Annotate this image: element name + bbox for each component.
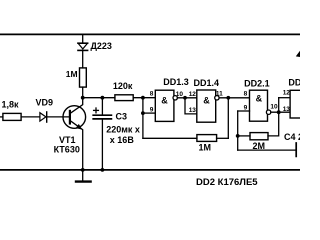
junction out DD1.4: [226, 96, 230, 100]
gate DD1.4: [197, 90, 219, 122]
junction out DD2.1: [277, 110, 281, 114]
resistor 1,8к: [0, 116, 3, 118]
feedback wire bottom: [143, 137, 197, 139]
vertical to pin 13: [185, 98, 197, 114]
pin 12 wire: [279, 97, 290, 99]
svg-text:120к: 120к: [113, 81, 133, 91]
wire to VD9: [21, 116, 40, 118]
svg-text:12: 12: [283, 90, 291, 97]
svg-text:DD1.4: DD1.4: [194, 78, 220, 88]
svg-text:DD2 К176ЛЕ5: DD2 К176ЛЕ5: [196, 177, 258, 188]
svg-text:С4 2: С4 2: [284, 132, 300, 142]
gate DD2.1: [250, 90, 271, 121]
node C3 junction: [101, 96, 105, 100]
svg-text:8: 8: [150, 90, 154, 97]
resistor 120к: [115, 95, 133, 101]
wire VD9 to base: [47, 116, 69, 118]
diode Д223: [78, 43, 88, 50]
junction out DD1.3: [183, 96, 187, 100]
bottom ground rail: [0, 169, 300, 171]
ground: [76, 170, 91, 182]
feedback vertical right: [227, 98, 229, 139]
pin9 branch junction: [141, 111, 145, 115]
junction 2M branch: [236, 134, 240, 138]
wire DD1.4 out to DD2.1 pin8: [219, 97, 249, 99]
svg-text:DD: DD: [288, 78, 300, 88]
svg-text:2М: 2М: [253, 141, 266, 151]
svg-text:220мк х: 220мк х: [106, 125, 140, 135]
wire 2M right up: [268, 98, 279, 136]
wire to pin 9: [143, 112, 155, 114]
wire node to C4: [238, 149, 296, 151]
svg-text:12: 12: [189, 91, 197, 98]
svg-text:8: 8: [244, 90, 248, 97]
svg-text:&: &: [203, 95, 210, 105]
svg-text:&: &: [256, 94, 263, 104]
node A vertical: [142, 98, 144, 139]
capacitor C3: [93, 98, 111, 170]
svg-text:10: 10: [270, 104, 278, 111]
pin 9 wire: [238, 110, 250, 112]
svg-text:DD2.1: DD2.1: [244, 79, 270, 89]
out DD2.1 wire: [271, 111, 290, 113]
svg-text:х 16В: х 16В: [110, 135, 135, 145]
clipped mark right edge: [296, 51, 300, 57]
top supply rail: [0, 33, 300, 35]
resistor 1M feedback: [197, 135, 217, 142]
svg-text:1М: 1М: [199, 143, 212, 153]
gate DD2.2: [290, 90, 304, 118]
svg-text:Д223: Д223: [91, 41, 112, 51]
resistor 2M: [250, 133, 268, 140]
svg-text:11: 11: [216, 90, 223, 97]
emitter junction on rail: [81, 168, 85, 172]
capacitor C4: [295, 143, 297, 156]
wire to 2M: [238, 135, 250, 137]
diode VD9: [40, 112, 47, 122]
svg-text:КТ630: КТ630: [54, 145, 80, 155]
main node wire: [83, 97, 115, 99]
svg-text:13: 13: [189, 107, 197, 114]
gate DD1.3: [155, 90, 177, 121]
resistor 1M (vertical): [80, 68, 87, 87]
wire R1M to collector node: [82, 87, 84, 98]
node A junction: [141, 96, 145, 100]
svg-text:&: &: [161, 96, 168, 106]
svg-text:13: 13: [283, 106, 291, 113]
svg-text:DD1.3: DD1.3: [163, 77, 189, 87]
svg-text:1М: 1М: [66, 69, 78, 79]
wire rail to diode VD (x=82.7): [82, 34, 84, 43]
svg-text:VD9: VD9: [36, 97, 54, 107]
wire 1M to vertical: [217, 137, 229, 139]
node collector junction: [81, 96, 85, 100]
vertical pin9 node: [237, 111, 239, 150]
svg-text:С3: С3: [116, 112, 128, 122]
transistor VT1: [63, 98, 86, 170]
svg-text:1,8к: 1,8к: [2, 100, 20, 110]
wire diode to R 1M: [82, 50, 84, 68]
svg-text:10: 10: [176, 91, 184, 98]
svg-text:9: 9: [244, 104, 248, 111]
svg-text:VT1: VT1: [59, 135, 76, 145]
svg-text:9: 9: [150, 106, 154, 113]
wire 120к to node A: [133, 97, 155, 99]
wire DD1.3 out to DD1.4: [177, 97, 196, 99]
